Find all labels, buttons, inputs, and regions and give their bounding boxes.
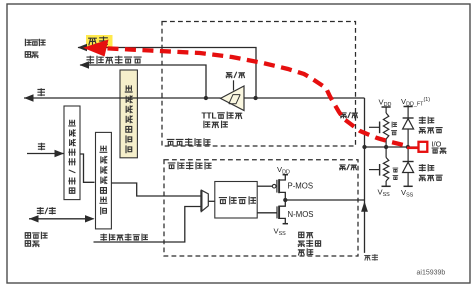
label: on/off (pull-up) [341,113,347,118]
arrowhead: read/write right [85,215,95,222]
arrowhead: read [24,94,34,101]
label: bit set/reset register [69,120,75,193]
I/O pin square (red highlighted) [419,142,428,152]
schmitt trigger on/off control stub [233,80,235,90]
label: alternate function input [87,56,94,63]
label: protection diode (bottom) [419,165,425,171]
VSS rail bar (diode) [404,185,413,187]
label: output driver [168,163,175,169]
wire: analog line to on-chip peripherals (top) [78,48,256,99]
wire: mux output to output control [208,200,215,202]
label: pull-down [393,168,398,172]
wire: output control to p-mos gate [257,185,272,187]
red annotation: arrowhead [83,40,109,57]
transistor N-MOS [277,200,288,224]
label: on/off (pull-down) [340,165,346,170]
red annotation: segment to pin [407,147,418,150]
output data register box [96,132,112,229]
wire: main I/O vertical [364,98,366,253]
P-MOS drain node [283,198,287,202]
wire: mos output to pad vertical [285,199,364,201]
input driver dashed box [162,22,356,147]
label: read/write [37,208,43,214]
wire: read line / schmitt output through input data register [24,97,221,99]
svg-text:TTL: TTL [202,111,217,120]
label: push-pull / open-drain / disabled [299,232,304,237]
node: schmitt output junction [204,96,208,100]
svg-text:VDD: VDD [277,165,290,176]
node: diode junction [406,145,410,149]
input data register box (highlighted) [120,70,137,158]
pull-down resistor [385,147,387,158]
VDD rail bar (pull-up) [382,106,391,108]
output mux selector [201,190,208,211]
label: input driver [167,139,174,145]
protection diode D1 (to VDD_FT) [403,117,414,119]
label: output control [219,198,226,204]
output driver dashed box [164,160,358,256]
wire: output control to n-mos gate [257,212,276,214]
VSS rail bar (pull-down) [382,185,391,187]
arrowhead: analog to peripherals [78,44,88,51]
hysteresis symbol [229,95,240,104]
bit set/reset register box [64,106,80,200]
wire: bsrr to output data register connector [80,154,95,182]
VDD_FT rail bar [404,106,413,108]
svg-text:N-MOS: N-MOS [288,210,314,219]
highlighted analog label background [86,35,113,48]
label: output data register [100,146,107,214]
wire: I/O pad line [365,146,419,148]
wire: alternate function input [80,65,206,98]
output control box [215,182,257,219]
arrowhead: alternate function input [80,61,90,68]
wire: schmitt input to main vertical [244,97,365,99]
wire: output data register to mux [111,183,201,196]
pull-up resistor [385,107,387,113]
TTL schmitt trigger U1 [221,86,245,111]
svg-text:VDD_FT(1): VDD_FT(1) [401,97,430,108]
pull-up switch [369,126,380,128]
arrowhead: read/write left [29,215,39,222]
label: pull-up [392,122,396,127]
transistor P-MOS [272,175,288,200]
label: read [38,89,44,96]
arrowhead: write [55,150,65,157]
label: input data register [125,86,132,153]
label: to on-chip peripherals [25,39,31,45]
label: protection diode (top) [419,117,425,123]
svg-text:VSS: VSS [401,188,414,199]
svg-text:I/O: I/O [432,139,442,148]
label: on/off (schmitt) [226,73,232,78]
protection diode D2 (to VSS) [407,147,409,162]
pull-down switch [369,169,380,171]
node: pull resistor junction [384,145,388,149]
node: pad vertical junction [362,145,366,149]
wire: write line into bit set/reset register [27,153,64,155]
red annotation: analog path dashed curve [90,48,406,146]
svg-text:VSS: VSS [274,226,287,237]
svg-text:VSS: VSS [378,187,391,198]
wire: alternate function output to mux [94,207,202,243]
label: analog (highlighted) [89,38,97,45]
label: from on-chip peripherals [25,233,30,238]
wire: read/write double arrow line [29,218,94,220]
svg-text:VDD: VDD [379,97,392,108]
label: analog (bottom) [365,255,370,260]
label: write [38,143,44,149]
svg-text:P-MOS: P-MOS [288,182,314,191]
svg-text:ai15939b: ai15939b [417,270,446,277]
label: alternate function output [101,234,107,240]
analog direction arrow [361,201,368,212]
node: analog tap junction [253,96,257,100]
